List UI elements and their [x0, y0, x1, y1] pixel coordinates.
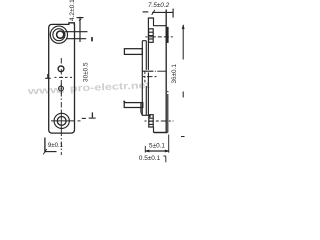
- svg-text:30±0.5: 30±0.5: [83, 62, 90, 82]
- svg-text:4.2±0.1: 4.2±0.1: [69, 0, 76, 21]
- svg-text:9±0.1: 9±0.1: [48, 142, 64, 149]
- svg-text:7.5±0.2: 7.5±0.2: [148, 2, 170, 9]
- svg-text:36±0.1: 36±0.1: [171, 64, 178, 84]
- svg-text:5±0.1: 5±0.1: [149, 143, 165, 150]
- svg-text:0.5±0.1: 0.5±0.1: [139, 155, 161, 162]
